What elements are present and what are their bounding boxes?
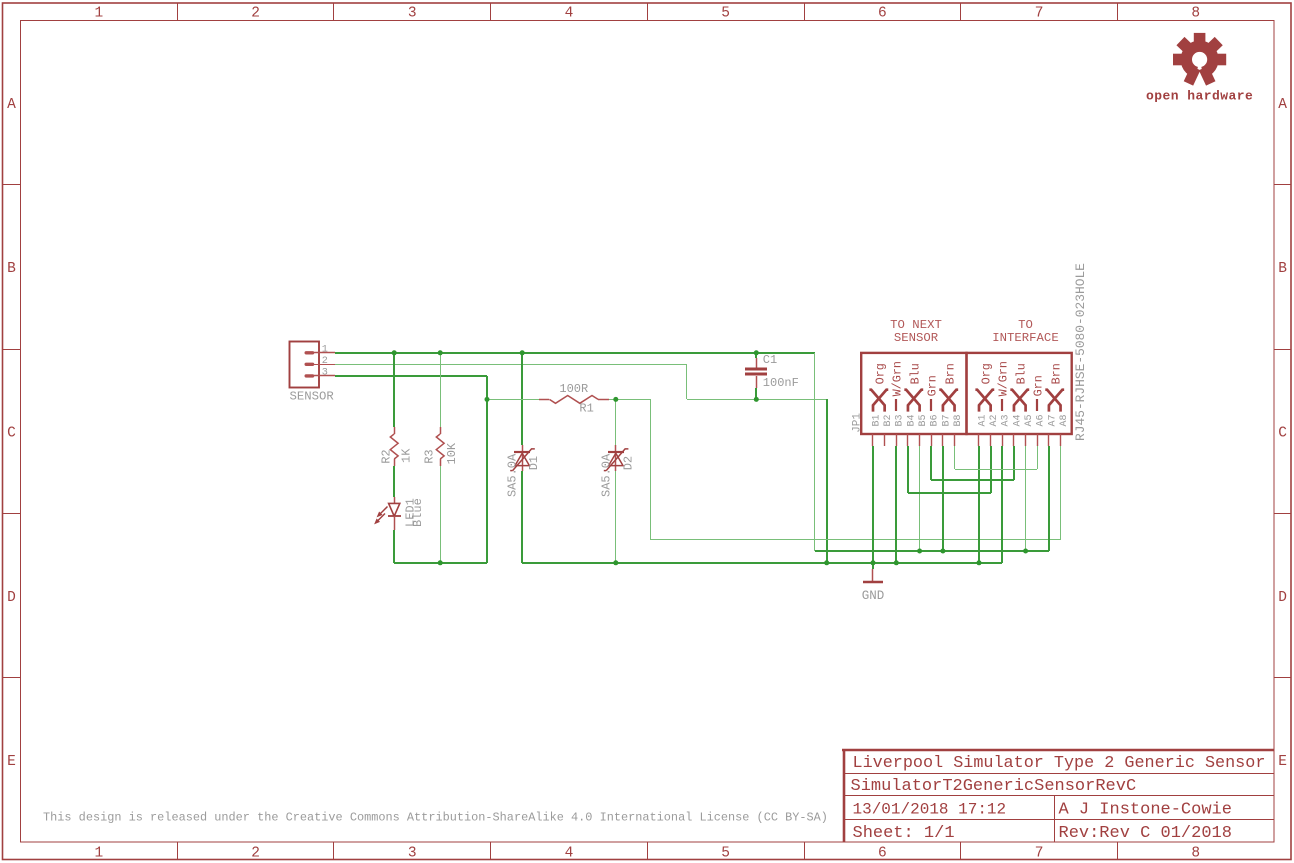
wire D2 lower <box>615 471 617 563</box>
wire net VCC top horizontal <box>335 352 815 354</box>
pin B1 <box>872 434 874 446</box>
single wire symbol W/Grn <box>1001 399 1003 411</box>
pin A8 <box>1060 434 1062 446</box>
svg-text:A J Instone-Cowie: A J Instone-Cowie <box>1059 801 1232 820</box>
ground symbol GND <box>863 569 883 582</box>
wire net N$2 horizontal from pin 2 <box>335 364 687 366</box>
wire A8 vertical <box>1060 446 1062 540</box>
svg-text:B4: B4 <box>906 414 917 426</box>
single wire symbol W/Grn <box>895 399 897 411</box>
svg-text:Grn: Grn <box>926 375 940 396</box>
pair symbol Org <box>869 390 888 412</box>
connector JP1 (dual RJ45) <box>861 353 1071 434</box>
wire D1 upper <box>521 353 523 445</box>
svg-text:B7: B7 <box>941 414 952 426</box>
svg-text:2: 2 <box>251 846 260 862</box>
diode D2 <box>604 445 629 471</box>
svg-text:This design is released under: This design is released under the Creati… <box>43 810 828 824</box>
wire net N$3 left rail <box>394 562 487 564</box>
svg-text:W/Grn: W/Grn <box>997 361 1011 396</box>
wire A5 vertical <box>1025 446 1027 551</box>
svg-text:B5: B5 <box>918 414 929 426</box>
svg-text:8: 8 <box>1191 846 1200 862</box>
svg-text:Sheet: 1/1: Sheet: 1/1 <box>853 824 955 843</box>
svg-text:1: 1 <box>322 344 328 355</box>
pin B7 <box>942 434 944 446</box>
svg-text:Grn: Grn <box>1032 375 1046 396</box>
pair symbol Blu <box>1010 390 1029 412</box>
pair symbol Org <box>975 390 994 412</box>
svg-text:1: 1 <box>94 846 103 862</box>
wire net N$2/GND vertical to rail <box>826 399 828 563</box>
single wire symbol Grn <box>1036 399 1038 411</box>
junction dots on R1 net <box>485 397 490 402</box>
svg-text:B: B <box>1278 261 1287 277</box>
svg-text:SA5.0A: SA5.0A <box>599 453 613 497</box>
connector SENSOR <box>290 342 336 388</box>
resistor R1 <box>539 396 609 404</box>
wire N$3 lower horizontal to A8 <box>650 539 1060 541</box>
svg-text:SA5.0A: SA5.0A <box>505 453 519 497</box>
wire N$3 drop toward A8 <box>650 399 652 540</box>
svg-text:Brn: Brn <box>1050 363 1064 384</box>
svg-text:A: A <box>7 97 16 113</box>
wire B8 to A6 crossover <box>954 446 956 469</box>
svg-text:C: C <box>1278 425 1287 441</box>
svg-text:5: 5 <box>721 6 730 22</box>
wire B5 vertical <box>919 446 921 551</box>
svg-text:JP1: JP1 <box>852 413 864 433</box>
wire R2 branch upper <box>393 353 395 427</box>
svg-text:8: 8 <box>1191 6 1200 22</box>
svg-text:R1: R1 <box>579 402 593 416</box>
svg-text:3: 3 <box>408 6 417 22</box>
resistor R3 <box>436 427 444 466</box>
svg-text:Blu: Blu <box>1015 363 1029 384</box>
pair symbol Brn <box>1045 390 1064 412</box>
svg-text:100nF: 100nF <box>763 376 799 390</box>
svg-text:7: 7 <box>1035 6 1044 22</box>
pin A6 <box>1037 434 1039 446</box>
pin A1 <box>978 434 980 446</box>
svg-text:A8: A8 <box>1059 414 1070 426</box>
svg-text:R2: R2 <box>380 449 394 463</box>
svg-text:100R: 100R <box>559 382 588 396</box>
svg-text:2: 2 <box>251 6 260 22</box>
svg-text:4: 4 <box>565 6 574 22</box>
pin A3 <box>1002 434 1004 446</box>
single wire symbol Grn <box>930 399 932 411</box>
svg-text:5: 5 <box>721 846 730 862</box>
svg-text:D: D <box>7 590 16 606</box>
svg-text:Brn: Brn <box>944 363 958 384</box>
pin A5 <box>1025 434 1027 446</box>
junction dots on VCC net <box>392 350 397 355</box>
wire A7 vertical <box>1048 446 1050 551</box>
wire B1 vertical to GND rail <box>872 446 874 563</box>
svg-text:B2: B2 <box>883 414 894 426</box>
svg-text:A1: A1 <box>977 414 988 426</box>
svg-text:A7: A7 <box>1047 414 1058 426</box>
wire net N$3 junction to R1 <box>487 399 539 401</box>
svg-text:4: 4 <box>565 846 574 862</box>
svg-text:13/01/2018 17:12: 13/01/2018 17:12 <box>853 801 1007 819</box>
svg-text:A3: A3 <box>1001 414 1012 426</box>
svg-text:Org: Org <box>874 363 888 384</box>
capacitor C1 <box>745 358 767 388</box>
svg-text:B3: B3 <box>895 414 906 426</box>
wire B7 vertical <box>942 446 944 551</box>
svg-text:3: 3 <box>322 368 328 379</box>
svg-text:A5: A5 <box>1024 414 1035 426</box>
wire B4 to A2 crossover <box>907 446 909 493</box>
pin B4 <box>907 434 909 446</box>
svg-text:R3: R3 <box>423 449 437 463</box>
svg-text:B1: B1 <box>871 414 882 426</box>
junction dot C1 bottom <box>754 397 759 402</box>
svg-text:6: 6 <box>878 846 887 862</box>
svg-text:C: C <box>7 425 16 441</box>
junction dots on VCC lower <box>917 549 922 554</box>
wire net N$3 vertical <box>486 376 488 563</box>
junction dot R3 bottom <box>438 560 443 565</box>
svg-text:Rev:Rev C 01/2018: Rev:Rev C 01/2018 <box>1059 824 1232 843</box>
svg-text:INTERFACE: INTERFACE <box>992 331 1058 345</box>
wire R1 to D2 top <box>609 399 650 401</box>
wire net N$3 horizontal from pin 3 <box>335 375 487 377</box>
junction dots on GND rail <box>613 560 618 565</box>
svg-text:E: E <box>7 754 16 770</box>
svg-text:6: 6 <box>878 6 887 22</box>
svg-text:2: 2 <box>322 356 328 367</box>
diode D1 <box>510 445 535 471</box>
wire VCC lower horizontal <box>815 550 1049 552</box>
pin B5 <box>919 434 921 446</box>
svg-text:B6: B6 <box>930 414 941 426</box>
wire net N$2 vertical drop <box>686 364 688 399</box>
svg-text:A4: A4 <box>1012 414 1023 426</box>
wire D1 lower <box>521 471 523 563</box>
svg-text:open hardware: open hardware <box>1146 88 1253 103</box>
svg-text:1K: 1K <box>400 448 414 463</box>
wire LED1 to rail <box>393 530 395 563</box>
svg-text:A: A <box>1278 97 1287 113</box>
svg-text:D1: D1 <box>527 456 541 470</box>
wire B6 to A4 crossover <box>930 446 932 480</box>
pair symbol Blu <box>904 390 923 412</box>
wire R2 to LED1 <box>393 466 395 497</box>
LED LED1 <box>374 497 401 530</box>
wire B3 vertical to GND rail <box>895 446 897 563</box>
wire D2 upper <box>615 399 617 445</box>
pin B6 <box>931 434 933 446</box>
svg-text:A2: A2 <box>989 414 1000 426</box>
pair symbol Brn <box>939 390 958 412</box>
svg-text:Blu: Blu <box>909 363 923 384</box>
wire C1 top stub <box>755 353 757 358</box>
open hardware logo <box>1146 33 1253 103</box>
pin A2 <box>990 434 992 446</box>
svg-text:10K: 10K <box>445 442 459 464</box>
svg-text:D2: D2 <box>622 456 636 470</box>
pin A4 <box>1013 434 1015 446</box>
pin B8 <box>954 434 956 446</box>
svg-text:Org: Org <box>980 363 994 384</box>
pin B2 <box>884 434 886 446</box>
wire R3 to rail <box>440 466 442 563</box>
svg-text:SENSOR: SENSOR <box>894 331 939 345</box>
svg-text:Blue: Blue <box>411 498 425 527</box>
title block <box>842 749 1274 843</box>
svg-text:3: 3 <box>408 846 417 862</box>
svg-text:D: D <box>1278 590 1287 606</box>
wire A1 vertical to GND rail <box>978 446 980 563</box>
wire A3 vertical to GND rail <box>1001 446 1003 563</box>
svg-text:7: 7 <box>1035 846 1044 862</box>
wire GND rail <box>522 562 1002 564</box>
wire VCC drop at right <box>814 353 816 551</box>
svg-text:GND: GND <box>862 589 885 603</box>
svg-text:SENSOR: SENSOR <box>290 390 335 404</box>
svg-text:Liverpool Simulator Type 2 Gen: Liverpool Simulator Type 2 Generic Senso… <box>853 754 1266 773</box>
wire C1 bottom stub <box>755 388 757 399</box>
svg-text:E: E <box>1278 754 1287 770</box>
pin B3 <box>896 434 898 446</box>
svg-text:B8: B8 <box>953 414 964 426</box>
resistor R2 <box>390 427 398 466</box>
svg-text:C1: C1 <box>763 353 777 367</box>
pin A7 <box>1048 434 1050 446</box>
svg-text:1: 1 <box>94 6 103 22</box>
svg-text:A6: A6 <box>1036 414 1047 426</box>
wire net N$2 to C1 bottom <box>687 399 827 401</box>
svg-text:RJ45-RJHSE-5080-023HOLE: RJ45-RJHSE-5080-023HOLE <box>1073 263 1088 441</box>
svg-text:B: B <box>7 261 16 277</box>
svg-text:SimulatorT2GenericSensorRevC: SimulatorT2GenericSensorRevC <box>851 777 1137 796</box>
svg-text:W/Grn: W/Grn <box>891 361 905 396</box>
wire GND symbol stem <box>872 563 874 569</box>
wire R3 branch upper <box>440 353 442 427</box>
